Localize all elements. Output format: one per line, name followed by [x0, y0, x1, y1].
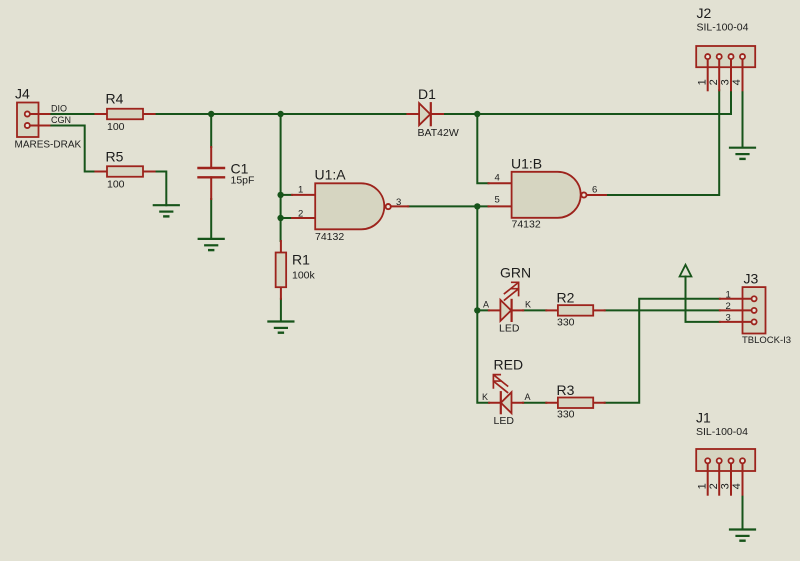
- svg-text:R1: R1: [292, 252, 310, 268]
- wire bus: D1 cathode to J2 pin3 column: [443, 113, 731, 115]
- svg-text:2: 2: [298, 208, 303, 219]
- connector J1 SIL-100-04: [696, 449, 755, 495]
- svg-text:6: 6: [592, 184, 597, 195]
- wire C1 bottom to ground: [210, 199, 212, 239]
- svg-text:SIL-100-04: SIL-100-04: [696, 426, 748, 438]
- svg-text:D1: D1: [418, 86, 436, 102]
- diode D1 BAT42W: [407, 103, 443, 125]
- svg-text:100: 100: [107, 121, 125, 133]
- svg-text:BAT42W: BAT42W: [418, 127, 459, 139]
- svg-text:100k: 100k: [292, 270, 316, 282]
- svg-text:R2: R2: [557, 289, 575, 305]
- svg-text:A: A: [525, 392, 531, 402]
- svg-text:K: K: [482, 392, 488, 402]
- svg-text:LED: LED: [499, 323, 520, 335]
- svg-text:15pF: 15pF: [231, 174, 255, 186]
- node junction U1:A pin1: [277, 192, 283, 198]
- wire RED LED anode to R3: [523, 402, 546, 404]
- wire vertical to U1:A inputs and R1: [280, 114, 282, 241]
- svg-text:1: 1: [696, 483, 708, 489]
- svg-text:3: 3: [720, 79, 732, 85]
- op-amp U1:B (NAND 74132): [489, 172, 607, 218]
- svg-text:CGN: CGN: [51, 115, 71, 125]
- svg-text:J1: J1: [696, 410, 711, 426]
- wire R5 right to ground: [155, 172, 167, 206]
- wire to U1:A pin2: [281, 217, 293, 219]
- svg-text:3: 3: [726, 313, 731, 324]
- LED RED: [489, 375, 523, 414]
- ground below J2 pin4: [730, 148, 755, 159]
- svg-text:J2: J2: [697, 5, 712, 21]
- resistor R5: [95, 166, 154, 177]
- wire J2 pin3 down to bus: [730, 90, 732, 114]
- svg-text:2: 2: [708, 483, 720, 489]
- svg-text:4: 4: [731, 79, 743, 85]
- svg-text:5: 5: [495, 195, 500, 206]
- resistor R1 (vertical): [276, 241, 287, 299]
- ground below R1: [268, 322, 293, 333]
- svg-text:4: 4: [731, 483, 743, 489]
- svg-text:U1:A: U1:A: [315, 167, 347, 183]
- node junction U1:A pin2: [277, 215, 283, 221]
- svg-text:TBLOCK-I3: TBLOCK-I3: [742, 335, 791, 346]
- svg-text:74132: 74132: [512, 218, 541, 230]
- wire J1 pin4 down to ground: [742, 495, 744, 530]
- wire DIO: J4 pin1 to R4: [49, 113, 95, 115]
- node junction C1/bus: [208, 111, 214, 117]
- svg-text:R5: R5: [106, 149, 124, 165]
- svg-text:1: 1: [696, 79, 708, 85]
- svg-text:J3: J3: [744, 271, 759, 287]
- wire bus drop to U1:B pin4: [477, 114, 488, 183]
- svg-text:GRN: GRN: [500, 265, 531, 281]
- svg-text:2: 2: [726, 301, 731, 312]
- wire power arrow stem to J3 pin3: [686, 277, 720, 322]
- wire U1:B pin5 node down to GRN LED anode: [477, 206, 489, 310]
- svg-text:2: 2: [708, 79, 720, 85]
- connector J3 TBLOCK-I3: [720, 287, 766, 333]
- wire CGN: J4 pin2 to R5: [49, 126, 95, 172]
- svg-text:LED: LED: [494, 415, 515, 427]
- power arrow at J3 pin3: [680, 265, 692, 277]
- resistor R3: [546, 398, 604, 409]
- svg-text:1: 1: [298, 185, 303, 196]
- wire R2 to J3 pin2: [605, 309, 720, 311]
- svg-text:4: 4: [495, 173, 500, 184]
- connector J4: [17, 103, 39, 138]
- op-amp U1:A (NAND 74132): [292, 183, 408, 229]
- wire J3 pin1 down to R3 right: [605, 299, 720, 403]
- svg-text:3: 3: [720, 483, 732, 489]
- wire J2 pin4 down to ground: [742, 90, 744, 147]
- svg-text:330: 330: [557, 316, 575, 328]
- resistor R2: [546, 305, 604, 316]
- wire U1:B output up to J2 pin2: [606, 90, 719, 195]
- resistor R4: [95, 109, 154, 120]
- svg-text:A: A: [483, 299, 489, 309]
- svg-text:R3: R3: [557, 382, 575, 398]
- svg-text:DIO: DIO: [51, 104, 67, 114]
- svg-text:100: 100: [107, 179, 125, 191]
- ground below R5: [154, 205, 179, 216]
- node junction U1:B-pin4-column/bus: [474, 111, 480, 117]
- wire to U1:A pin1: [281, 194, 293, 196]
- ground below J1 pin4: [730, 530, 755, 541]
- svg-text:74132: 74132: [315, 231, 344, 243]
- node junction GRN LED anode: [474, 307, 480, 313]
- node junction U1:B pin5: [474, 203, 480, 209]
- svg-text:RED: RED: [494, 357, 524, 373]
- svg-text:MARES-DRAK: MARES-DRAK: [15, 139, 82, 150]
- wire U1:A output to U1:B pin5: [408, 205, 488, 207]
- svg-text:J4: J4: [15, 86, 30, 102]
- LED GRN: [489, 282, 523, 321]
- svg-text:1: 1: [726, 290, 731, 301]
- ground below C1: [199, 239, 224, 250]
- svg-text:K: K: [525, 299, 531, 309]
- svg-text:330: 330: [557, 409, 575, 421]
- svg-text:U1:B: U1:B: [511, 156, 542, 172]
- svg-text:SIL-100-04: SIL-100-04: [697, 22, 749, 34]
- svg-text:3: 3: [396, 197, 401, 208]
- wire GRN LED cathode to R2: [523, 309, 546, 311]
- wire bus: R4 to D1 anode: [155, 113, 408, 115]
- wire C1 top: [210, 114, 212, 147]
- capacitor C1: [199, 147, 225, 199]
- svg-text:R4: R4: [106, 91, 124, 107]
- wire R1 bottom to ground: [280, 299, 282, 322]
- connector J2 SIL-100-04: [696, 46, 755, 90]
- wire GRN node down to RED LED cathode: [477, 310, 489, 402]
- node junction R1-column/bus: [277, 111, 283, 117]
